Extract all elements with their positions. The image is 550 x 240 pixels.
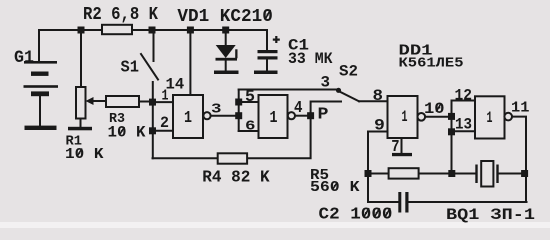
junction rail-pin14 xyxy=(187,27,194,34)
slashed zero in R3 10K xyxy=(119,127,124,135)
VD1 zener hook xyxy=(235,49,237,58)
svg-text:VD1 KC210: VD1 KC210 xyxy=(177,7,272,27)
svg-text:12: 12 xyxy=(455,87,473,105)
svg-text:G1: G1 xyxy=(14,48,34,68)
wire pin 7 ground lead xyxy=(401,138,403,153)
wire BQ1 right segment xyxy=(498,173,527,175)
potentiometer R1 body xyxy=(76,87,86,119)
junction pin6 node xyxy=(235,112,242,119)
svg-text:13: 13 xyxy=(455,116,472,134)
svg-text:1: 1 xyxy=(487,109,493,127)
svg-text:2: 2 xyxy=(160,114,169,132)
wire pin 12 input xyxy=(452,100,476,102)
junction rail-VD1 xyxy=(222,27,229,34)
resistor R2 body xyxy=(102,25,132,34)
junction rail-R1 xyxy=(78,27,85,34)
crystal BQ1 body xyxy=(481,161,493,187)
junction node B out10 xyxy=(448,113,455,120)
C2 left plate xyxy=(398,192,401,213)
gate DD1.4 body xyxy=(475,96,505,138)
junction node P xyxy=(307,112,314,119)
svg-text:S2: S2 xyxy=(339,63,358,81)
svg-text:BQ1 ЗП-1: BQ1 ЗП-1 xyxy=(446,206,535,224)
wire pin 9 input and vertical to R5/C2 node xyxy=(368,132,388,203)
ground bar pin 7 xyxy=(392,153,412,156)
wire pin 14 to rail xyxy=(189,30,191,95)
gate DD1.1 output bubble xyxy=(203,112,210,119)
wire pin 6 input xyxy=(239,130,259,132)
ground bar C1 xyxy=(254,71,278,75)
slashed zero in pin 10 xyxy=(436,104,441,112)
svg-text:11: 11 xyxy=(511,99,529,116)
wire VD1 bottom lead xyxy=(225,61,227,71)
gate DD1.2 body xyxy=(259,95,288,138)
wire pin 11 output down to C2 right xyxy=(512,117,526,202)
wire top supply rail xyxy=(39,29,267,31)
wire S1 upper lead xyxy=(153,30,155,61)
junction pin5 xyxy=(235,99,242,106)
slashed zero in 560K xyxy=(332,182,337,190)
junction BQ1 right / C2 right xyxy=(521,170,528,177)
svg-text:1: 1 xyxy=(270,109,278,128)
VD1 zener triangle xyxy=(216,45,236,58)
svg-text:S1: S1 xyxy=(121,58,140,77)
wire pin 5 input xyxy=(239,101,259,103)
wire R4 left segment xyxy=(153,157,218,159)
wire C1 bottom lead xyxy=(266,60,268,71)
svg-text:1: 1 xyxy=(402,108,408,126)
wire C1 top lead xyxy=(266,30,268,50)
wire pin 13 input xyxy=(452,130,476,132)
resistor R4 body xyxy=(218,153,247,163)
battery G1 cell1 short plate xyxy=(31,72,49,76)
wire R1 wiper to R3 xyxy=(91,100,106,102)
wire R5 to BQ1 segment xyxy=(419,173,477,175)
gate DD1.2 output bubble xyxy=(288,112,295,119)
svg-text:560 K: 560 K xyxy=(310,180,360,196)
svg-text:R4 82 K: R4 82 K xyxy=(202,168,270,187)
svg-text:6: 6 xyxy=(245,119,256,135)
svg-text:9: 9 xyxy=(374,117,385,135)
battery G1 cell2 short plate xyxy=(31,91,49,96)
wire R5 left segment xyxy=(368,173,389,175)
crystal BQ1 left electrode xyxy=(475,165,477,184)
svg-text:R2 6,8 K: R2 6,8 K xyxy=(83,5,158,25)
wire R4 right segment up to node P xyxy=(247,116,311,159)
junction node A pin1 xyxy=(149,99,156,106)
slashed zero in KC210 xyxy=(265,10,271,19)
junction R5 right / BQ1 left xyxy=(448,170,455,177)
gate DD1.4 output bubble xyxy=(504,113,512,121)
svg-text:1: 1 xyxy=(162,88,169,105)
C1 plus sign xyxy=(273,39,280,41)
ground bar battery xyxy=(25,126,57,130)
wire pin 8 input xyxy=(359,100,388,102)
wire R1 top lead from rail xyxy=(80,30,82,87)
svg-text:8: 8 xyxy=(373,87,384,105)
svg-text:10 K: 10 K xyxy=(65,146,104,163)
wire battery bottom lead xyxy=(39,96,41,126)
svg-text:5: 5 xyxy=(245,88,255,107)
wire node 3 to S2 upper contact xyxy=(239,89,336,91)
junction node B pin13 xyxy=(448,128,455,135)
svg-text:4: 4 xyxy=(294,99,303,118)
svg-text:33 МК: 33 МК xyxy=(288,50,333,68)
wire battery top lead xyxy=(38,30,40,61)
S2 pivot contact dot xyxy=(336,88,341,93)
wire gate2 input vertical xyxy=(238,90,240,132)
junction R5 left / C2 left xyxy=(365,170,372,177)
slashed zero in R1 10K xyxy=(77,149,82,157)
wire VD1 top lead xyxy=(225,30,227,45)
R1 wiper arrowhead xyxy=(86,97,94,105)
wire R3 to node A xyxy=(139,101,153,103)
wire C2 left segment xyxy=(368,201,398,203)
wire R1 bottom lead xyxy=(80,119,82,128)
VD1 cathode bar xyxy=(216,58,238,61)
wire gate1 output to gate2 inputs xyxy=(211,115,239,117)
ground bar VD1 xyxy=(214,71,239,75)
wire pin 1 input xyxy=(153,101,174,103)
svg-text:К561ЛЕ5: К561ЛЕ5 xyxy=(399,55,464,71)
gate DD1.1 body xyxy=(173,95,203,138)
svg-text:C2 1000: C2 1000 xyxy=(319,206,393,225)
wire gate3 output to node B xyxy=(425,116,451,118)
svg-text:P: P xyxy=(318,105,329,124)
gate DD1.3 output bubble xyxy=(418,113,426,121)
resistor R3 body xyxy=(106,96,139,107)
wire S1 blade xyxy=(141,54,158,80)
svg-text:3: 3 xyxy=(321,74,331,92)
battery G1 cell2 long plate xyxy=(24,85,59,88)
svg-text:1: 1 xyxy=(184,109,192,128)
junction rail-S1 xyxy=(149,27,156,34)
C2 right plate xyxy=(405,192,408,213)
wire C2 right segment xyxy=(409,201,527,203)
battery G1 cell1 long plate xyxy=(24,61,57,64)
wire node B vertical xyxy=(451,101,453,174)
wire S2 blade xyxy=(341,92,360,101)
wire pin 2 input xyxy=(153,130,174,132)
svg-text:7: 7 xyxy=(391,138,399,157)
resistor R5 body xyxy=(389,168,419,178)
wire node A vertical (S1 bottom through pins 1,2 down to R4) xyxy=(152,82,154,158)
svg-text:10 K: 10 K xyxy=(108,123,147,141)
wire node P up-stub to S2 lower contact xyxy=(311,102,341,116)
crystal BQ1 right electrode xyxy=(496,165,498,184)
C1 top plate xyxy=(258,50,278,53)
wire gate2 output to node P xyxy=(295,115,307,117)
junction node A pin2 xyxy=(149,127,156,134)
ground bar R1 xyxy=(68,127,92,131)
svg-text:10: 10 xyxy=(424,100,445,118)
gate DD1.3 body xyxy=(388,96,418,138)
slashed zeros in C2 1000 xyxy=(364,208,369,217)
svg-text:3: 3 xyxy=(211,102,222,118)
C1 bottom plate xyxy=(258,56,278,59)
